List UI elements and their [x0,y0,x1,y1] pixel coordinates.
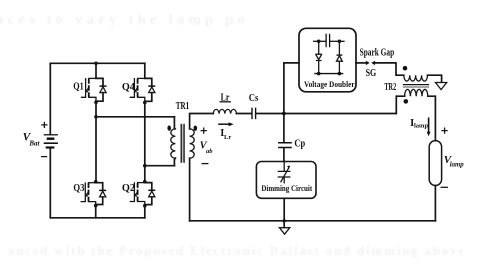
wire: Q4/Q2 leg middle [144,103,146,182]
transformer TR1 [171,117,194,166]
transistor Q4 [130,78,155,102]
transistor Q1 [82,78,107,102]
svg-text:Voltage Doubler: Voltage Doubler [304,80,355,89]
wire: Q1/Q3 leg top [95,63,97,77]
wire: Q1/Q3 leg middle [95,102,97,182]
TR1 primary phase dot [167,125,171,130]
svg-text:lamp: lamp [414,123,428,130]
junction dot: node A [94,115,98,119]
wire: doubler cap right lead [330,40,344,42]
TR2 secondary phase dot [404,99,409,104]
wire: dimming block to ground rail [283,198,285,221]
lamp Vlamp [429,141,441,186]
wire: TR2 secondary to lamp [428,96,436,140]
wire: left battery leg upper [49,63,51,134]
svg-text:Q1: Q1 [73,82,84,93]
battery + terminal [42,122,47,127]
ground (main) [279,221,289,234]
wire: doubler output [356,62,366,64]
wire: top rail [50,62,145,64]
wire: TR1 secondary bottom to ground rail [189,158,191,221]
capacitor Cs [252,108,256,120]
svg-text:Q2: Q2 [122,183,135,194]
wire: Lr to Cs [236,113,251,115]
TR2 primary phase dot [403,66,408,71]
wire: main node to TR2 secondary [396,96,404,113]
wire: node A to TR1 primary [96,116,174,118]
label Ilamp [410,118,428,130]
wire: node down to Cp [283,114,285,143]
junction dot: doubler left top [317,40,321,44]
junction dot: Q2 drain [143,180,147,184]
spark gap SG [366,61,375,65]
wire: Q2 to bottom rail [144,206,146,218]
wire: doubler cap left lead [314,40,326,42]
svg-text:Q3: Q3 [73,183,84,194]
block: Voltage Doubler [299,28,356,92]
svg-text:ab: ab [206,148,213,155]
block: Dimming Circuit [256,162,316,199]
junction dot: doubler left bottom [317,72,321,76]
wire: Cs to TR2 node [256,113,396,115]
wire: TR2 primary right lead [428,75,442,82]
svg-text:lamp: lamp [450,162,465,169]
svg-text:Bat: Bat [28,140,40,148]
svg-text:Q4: Q4 [122,82,136,93]
wire: bottom rail (bridge) [50,217,145,219]
wire: TR1 primary bottom to node B [145,165,175,167]
battery VBat [44,135,58,148]
current arrow ILr [218,122,233,126]
wire: Cp to dimming block [283,148,285,161]
junction dot: Q2 source [143,204,147,208]
svg-text:Cp: Cp [294,138,305,149]
svg-text:Lr: Lr [224,134,231,141]
junction dot: Q4 source [143,101,147,105]
label Vab [200,140,214,155]
wire: doubler bottom bar [314,73,343,75]
svg-text:Spark Gap: Spark Gap [360,47,395,58]
svg-text:Cs: Cs [249,93,259,104]
wire: node up to voltage doubler [284,63,299,114]
junction dot: Q3 source [94,204,98,208]
label Vlamp [444,154,465,169]
junction dot: top rail / Q1 leg [94,62,98,66]
label Lr [220,92,230,103]
transformer TR2 [403,75,429,96]
label lamp - [441,186,447,188]
wire: bottom rail (secondary side) [190,220,436,222]
label lamp + [442,128,447,133]
wire: Q4/Q2 leg top [144,63,146,77]
current arrow Ilamp [427,118,431,137]
label ILr [220,128,231,141]
capacitor (doubler) [326,34,330,47]
label Vab - [202,163,208,165]
svg-text:SG: SG [366,68,377,79]
battery - terminal [42,156,47,158]
diode D2 [336,41,342,73]
variable capacitor (dimming) [278,162,291,183]
ground (TR2 primary) [436,83,447,90]
junction dot: doubler right bottom [338,72,342,76]
wire: spark gap to TR2 primary [375,63,404,75]
wire: left battery leg lower [49,149,51,218]
svg-text:Dimming Circuit: Dimming Circuit [261,184,312,193]
capacitor Cp [278,143,292,148]
svg-text:anced with the Proposed Electr: anced with the Proposed Electronic Balla… [8,243,464,258]
wire: TR1 secondary top to Lr [190,114,214,129]
svg-text:TR1: TR1 [176,101,189,112]
transistor Q2 [130,183,155,206]
junction dot: Q1 source [94,101,98,105]
junction dot: node B [143,164,147,168]
junction dot: resonant node [282,112,286,116]
label VBat [23,132,41,148]
inductor Lr [213,109,236,113]
transistor Q3 [81,183,106,206]
svg-text:TR2: TR2 [384,82,396,93]
diode D1 [316,41,322,73]
junction dot: ground rail [283,219,286,222]
wire: Q3 to bottom rail [95,206,97,218]
wire: lamp bottom to rail [434,186,436,221]
label Vab + [201,128,206,133]
junction dot: doubler right top [338,40,342,44]
TR1 secondary phase dot [194,126,198,131]
junction dot: Q3 drain [94,180,98,184]
